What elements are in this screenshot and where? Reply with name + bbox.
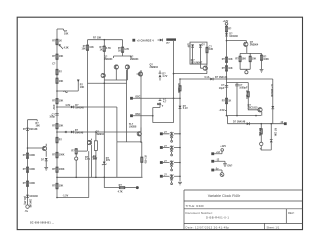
capacitor C4 <box>225 86 228 88</box>
diode D8 <box>191 44 194 47</box>
svg-text:10K: 10K <box>89 46 94 49</box>
svg-text:D?: D? <box>41 159 45 162</box>
svg-text:10K: 10K <box>59 100 64 103</box>
svg-text:R?: R? <box>59 139 63 142</box>
wire y175.1 <box>57 176 143 178</box>
svg-text:100K: 100K <box>59 168 65 171</box>
svg-text:D-BB-R401-0-1: D-BB-R401-0-1 <box>206 215 229 219</box>
transistor Q4 <box>114 65 118 69</box>
svg-text:D? 1N4148: D? 1N4148 <box>215 76 228 79</box>
resistor R10 <box>56 167 59 173</box>
svg-text:100K: 100K <box>29 154 35 157</box>
wire bottom U <box>57 151 89 197</box>
resistor R9 <box>56 152 59 158</box>
svg-text:R?: R? <box>228 28 232 31</box>
svg-text:2N3904: 2N3904 <box>130 58 139 61</box>
resistor R11 <box>56 183 59 189</box>
svg-text:47K: 47K <box>93 158 98 161</box>
svg-text:R?: R? <box>71 150 75 153</box>
diode D5 <box>45 158 48 161</box>
wire <box>103 52 105 178</box>
svg-text:1N4148: 1N4148 <box>229 35 238 38</box>
resistor R29 <box>140 157 143 163</box>
pad out <box>136 186 139 189</box>
svg-text:REV:: REV: <box>288 211 295 215</box>
svg-text:10K: 10K <box>242 57 247 60</box>
svg-text:1N4148: 1N4148 <box>29 195 38 198</box>
wire <box>104 177 119 187</box>
svg-text:(DC-05): (DC-05) <box>23 196 26 205</box>
svg-text:100K: 100K <box>29 168 35 171</box>
transistor Q5 <box>125 65 129 69</box>
resistor R8 <box>56 137 59 143</box>
svg-text:GN?: GN? <box>227 165 233 168</box>
svg-text:2SC1815: 2SC1815 <box>248 106 259 109</box>
svg-text:10K: 10K <box>59 125 64 128</box>
svg-text:10K: 10K <box>80 86 85 89</box>
transistor Q8 <box>137 132 141 136</box>
svg-text:R?: R? <box>52 100 56 103</box>
svg-text:100p: 100p <box>49 116 55 119</box>
wire <box>114 53 132 59</box>
svg-text:R? 10K: R? 10K <box>258 128 261 137</box>
svg-text:SG/LM567: SG/LM567 <box>191 61 203 64</box>
svg-text:SC-000-0000-B1 ...: SC-000-0000-B1 ... <box>30 222 54 225</box>
svg-text:D?: D? <box>23 128 27 131</box>
resistor R19 <box>225 26 228 32</box>
node junction <box>152 115 154 117</box>
svg-text:4.3V: 4.3V <box>65 104 70 107</box>
pot wiper <box>64 91 68 93</box>
svg-text:1N4148: 1N4148 <box>29 199 32 208</box>
resistor R21 <box>249 53 251 56</box>
svg-text:LM358: LM358 <box>129 126 137 129</box>
svg-text:10K: 10K <box>59 184 64 187</box>
wire <box>56 29 58 198</box>
diode D15 <box>179 106 182 109</box>
wire <box>28 120 38 205</box>
svg-text:D? 1N4148: D? 1N4148 <box>270 85 273 98</box>
svg-text:R?: R? <box>52 125 56 128</box>
svg-text:-1.5V: -1.5V <box>63 194 69 197</box>
transistor Q6 <box>101 73 105 77</box>
resistor R2 <box>56 54 59 60</box>
wiper arrow <box>59 45 63 50</box>
svg-text:1000pF: 1000pF <box>239 87 248 90</box>
resistor R6 <box>56 98 59 104</box>
svg-text:1N4148: 1N4148 <box>29 128 38 131</box>
resistor R7 <box>56 123 59 128</box>
wire <box>180 78 273 80</box>
svg-text:2N3904: 2N3904 <box>150 66 159 69</box>
svg-text:+12: +12 <box>216 151 221 154</box>
svg-text:R?: R? <box>52 184 56 187</box>
resistor R18 <box>206 47 209 53</box>
svg-text:R?: R? <box>52 168 56 171</box>
svg-text:10K: 10K <box>36 124 41 127</box>
resistor R4 <box>56 78 59 84</box>
title block <box>184 190 303 230</box>
svg-text:R?: R? <box>23 182 27 185</box>
resistor R24 <box>225 66 228 72</box>
resistor R1 <box>56 39 59 45</box>
wire <box>174 73 207 75</box>
sheet frame <box>17 17 302 229</box>
node junction <box>56 197 58 199</box>
wire bus2 <box>88 70 127 142</box>
svg-text:Variable Clock R40r: Variable Clock R40r <box>208 194 241 198</box>
svg-text:10K: 10K <box>64 33 69 36</box>
diode D2 <box>71 131 74 134</box>
svg-text:+12V: +12V <box>223 20 229 23</box>
svg-text:TITLE: R40F: TITLE: R40F <box>186 204 205 208</box>
wire <box>57 106 117 108</box>
svg-text:R?: R? <box>59 71 63 74</box>
diode D1 <box>71 106 74 109</box>
transistor Q10 <box>244 42 248 46</box>
connector J4 <box>160 175 163 178</box>
svg-text:OSC: OSC <box>135 113 140 116</box>
node junction <box>173 97 175 99</box>
pad +5 power <box>132 39 135 42</box>
transistor Q12 <box>87 140 91 144</box>
svg-text:R?: R? <box>235 57 239 60</box>
svg-text:1K: 1K <box>100 49 103 52</box>
svg-text:OSC: OSC <box>135 96 140 99</box>
node junction <box>56 106 58 108</box>
resistor R3 <box>56 69 59 75</box>
svg-text:+5 CHARGE 4: +5 CHARGE 4 <box>137 39 154 42</box>
svg-text:5.1V: 5.1V <box>183 107 188 110</box>
svg-text:D?: D? <box>202 43 206 46</box>
resistor R12 <box>26 153 29 159</box>
svg-text:Document Number:: Document Number: <box>186 211 213 215</box>
svg-text:2N3904: 2N3904 <box>104 58 113 61</box>
transistor Q9 <box>203 66 207 70</box>
wire emitter bus <box>240 47 261 54</box>
svg-text:R?: R? <box>23 168 27 171</box>
svg-text:30V: 30V <box>106 159 111 162</box>
resistor R26 <box>247 83 249 92</box>
svg-text:10K: 10K <box>82 48 87 51</box>
svg-text:R? 3K3: R? 3K3 <box>245 91 248 100</box>
svg-text:+12V: +12V <box>220 145 226 148</box>
pad OSC1 <box>130 97 133 100</box>
svg-text:1N4148: 1N4148 <box>75 107 84 110</box>
transistor Q3 <box>42 146 46 150</box>
wire y115.6 <box>227 115 262 117</box>
svg-text:10K: 10K <box>59 80 64 83</box>
ground <box>178 182 182 185</box>
wire to Q10 <box>227 41 247 42</box>
resistor R20 <box>239 53 241 56</box>
wire loop <box>190 42 207 64</box>
svg-text:D? 1N4148: D? 1N4148 <box>233 121 246 124</box>
node junction <box>27 147 29 149</box>
resistor R23 <box>225 57 228 63</box>
svg-text:4.5V: 4.5V <box>52 105 55 110</box>
svg-text:0.1A: 0.1A <box>204 76 209 79</box>
diode D11 <box>225 33 228 36</box>
svg-text:R?: R? <box>222 58 226 61</box>
svg-text:R? 10K: R? 10K <box>93 37 102 40</box>
diode D7 <box>159 71 162 81</box>
resistor R22 <box>261 53 263 55</box>
resistor R28 <box>179 86 182 92</box>
meter circle <box>260 142 263 145</box>
diode cluster D17 <box>157 98 161 107</box>
connector circle <box>26 205 29 208</box>
node junction <box>95 131 97 133</box>
pad P2 -12 <box>211 160 214 163</box>
wire long vertical mid <box>117 41 174 142</box>
svg-text:R?: R? <box>23 154 27 157</box>
wire <box>28 147 43 149</box>
resistor R16 <box>103 40 105 46</box>
wire y124 <box>228 116 284 124</box>
resistor R13 <box>26 167 29 173</box>
svg-text:4.7V: 4.7V <box>162 75 167 78</box>
svg-text:C?: C? <box>52 63 56 66</box>
node junction <box>104 39 106 41</box>
diode D3 <box>26 128 29 131</box>
wire <box>137 70 142 177</box>
svg-text:1K: 1K <box>228 99 231 102</box>
svg-text:4.7K: 4.7K <box>85 158 90 161</box>
node junction <box>179 97 181 99</box>
resistor R25 <box>225 98 228 104</box>
svg-text:R? 470: R? 470 <box>144 156 147 165</box>
svg-text:-4.5V: -4.5V <box>219 109 225 112</box>
svg-text:2N3904: 2N3904 <box>96 133 105 136</box>
transistor Q7 <box>138 72 142 76</box>
svg-text:10K: 10K <box>228 67 233 70</box>
relay box <box>94 141 97 151</box>
svg-text:R?: R? <box>222 67 226 70</box>
capacitor C5 <box>236 83 238 85</box>
svg-text:4.3K: 4.3K <box>64 47 69 50</box>
pad P1 +12 <box>211 152 214 155</box>
svg-text:R?: R? <box>119 184 123 187</box>
ground <box>44 168 48 171</box>
resistor R31 <box>119 186 125 189</box>
svg-text:Date: 12/07/2012 20:41:49p: Date: 12/07/2012 20:41:49p <box>186 226 230 230</box>
diode D6 <box>160 39 163 42</box>
pad OSC2 <box>130 114 133 117</box>
diode D13 <box>247 122 250 125</box>
svg-text:10K: 10K <box>252 57 257 60</box>
svg-text:4.7K: 4.7K <box>106 47 111 50</box>
arrow terminal <box>77 80 80 83</box>
diode D10 <box>210 78 213 81</box>
svg-text:P?: P? <box>167 42 171 45</box>
svg-text:1N4148: 1N4148 <box>75 131 84 134</box>
wire L-loop <box>153 108 174 123</box>
wire +5 bus <box>88 39 123 41</box>
wire bottom bus <box>240 61 261 70</box>
svg-text:1K: 1K <box>118 50 121 53</box>
svg-text:R? 10K: R? 10K <box>274 128 277 137</box>
net POWER label <box>166 38 176 40</box>
zener D16 <box>103 162 106 165</box>
node junction <box>56 131 58 133</box>
ground <box>260 70 264 73</box>
wire <box>57 80 78 92</box>
connector circle <box>245 69 247 70</box>
diode D12 vertical <box>272 79 274 124</box>
node junction <box>226 40 228 42</box>
wire stub y82.5 <box>227 82 249 84</box>
node junction <box>104 82 106 84</box>
resistor R17 <box>122 40 124 47</box>
wire long vertical <box>87 51 89 152</box>
svg-text:10K: 10K <box>228 58 233 61</box>
capacitor C2 <box>55 114 58 116</box>
pad P3 gnd <box>211 169 214 172</box>
svg-text:C30: C30 <box>209 48 214 51</box>
svg-text:R?: R? <box>52 40 56 43</box>
wire <box>57 29 64 31</box>
resistor R27 <box>260 124 262 129</box>
pot R30 <box>75 149 78 155</box>
diode D14 up <box>270 140 273 143</box>
svg-text:R?: R? <box>222 99 226 102</box>
svg-text:R? 100K: R? 100K <box>177 84 180 94</box>
svg-text:10K: 10K <box>59 55 64 58</box>
connector J1 <box>160 132 163 135</box>
resistor R14 <box>26 181 29 187</box>
svg-text:10pF: 10pF <box>219 87 225 90</box>
svg-text:R?: R? <box>52 154 56 157</box>
svg-text:100K: 100K <box>263 58 269 61</box>
connector J2 <box>160 146 163 149</box>
svg-text:4V: 4V <box>188 46 191 49</box>
svg-text:2N3904: 2N3904 <box>250 44 259 47</box>
bus wire <box>179 79 181 181</box>
wire <box>226 32 228 116</box>
svg-text:4.7K: 4.7K <box>124 48 129 51</box>
svg-text:Sheet: 1/1: Sheet: 1/1 <box>267 226 280 230</box>
svg-text:100K: 100K <box>29 182 35 185</box>
diode D9 <box>199 44 202 47</box>
resistor R15 <box>87 40 89 45</box>
svg-text:4.7K: 4.7K <box>118 191 123 194</box>
svg-text:100K: 100K <box>59 154 65 157</box>
wire emitters <box>104 69 127 80</box>
svg-text:R?: R? <box>52 55 56 58</box>
connector J3 <box>160 161 163 164</box>
wire <box>57 131 138 134</box>
node junction <box>56 90 58 92</box>
svg-text:1K: 1K <box>59 40 62 43</box>
diode D4 <box>26 195 29 198</box>
wire x116.9 lower <box>116 142 118 177</box>
